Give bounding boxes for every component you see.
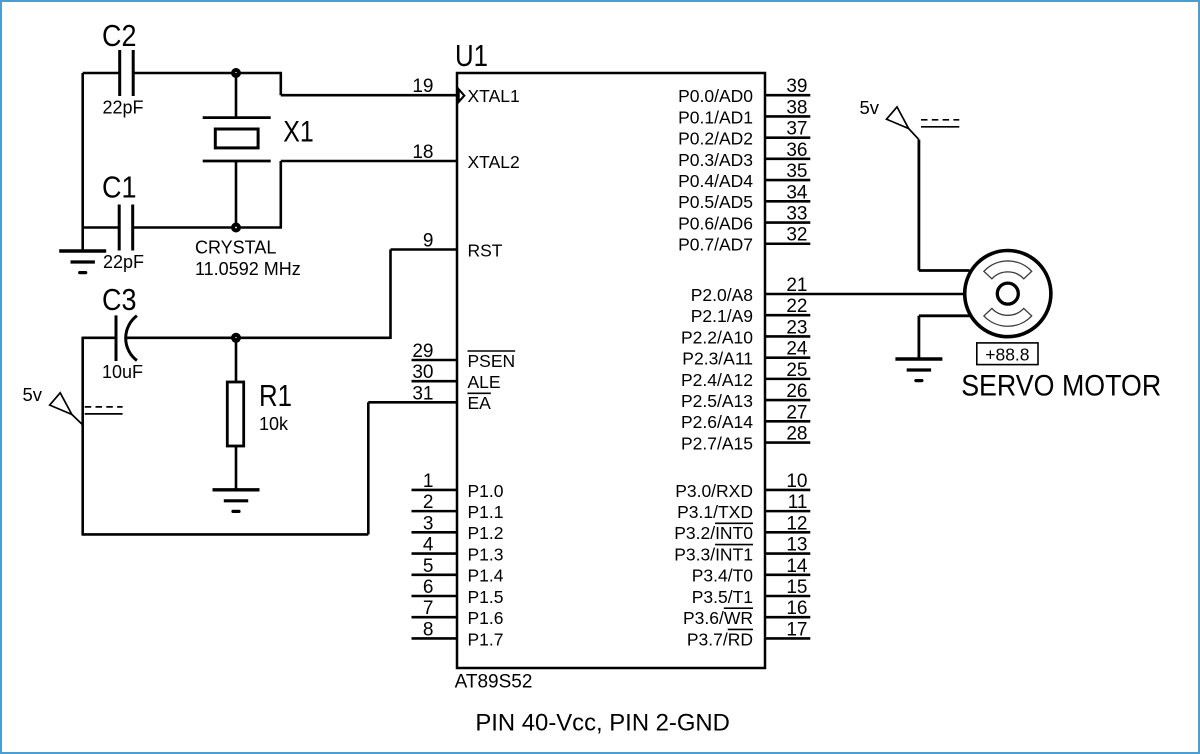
capacitor C2	[120, 50, 134, 96]
svg-text:P3.1/TXD: P3.1/TXD	[677, 502, 753, 522]
power terminal 5v left	[23, 384, 123, 425]
junction crystal top node	[231, 68, 241, 78]
ground servo	[895, 359, 942, 381]
svg-text:13: 13	[786, 535, 807, 556]
svg-text:P3.0/RXD: P3.0/RXD	[675, 481, 753, 501]
input arrowhead pin 19 XTAL1	[459, 89, 465, 102]
svg-text:P1.4: P1.4	[468, 566, 504, 586]
ground under R1	[213, 490, 260, 512]
value 10k of R1	[259, 414, 289, 434]
pin 6 P1.5	[412, 577, 504, 607]
pin 30 ALE	[412, 362, 501, 392]
pin 18 XTAL2	[412, 142, 519, 172]
svg-text:P2.2/A10: P2.2/A10	[681, 327, 753, 347]
pin 23 P2.2/A10	[681, 317, 810, 347]
wire 5v bottom run to EA pin 31	[83, 402, 457, 534]
pin 11 P3.1/TXD	[677, 492, 810, 522]
wire net XTAL2: C1/crystal to chip pin 18	[133, 161, 457, 228]
svg-text:P3.4/T0: P3.4/T0	[692, 566, 754, 586]
svg-text:P0.3/AD3: P0.3/AD3	[678, 150, 753, 170]
svg-text:35: 35	[786, 161, 807, 182]
servo motor body	[965, 251, 1051, 337]
wire C1 to rail	[83, 226, 120, 229]
svg-text:17: 17	[786, 619, 807, 640]
pin 36 P0.3/AD3	[678, 140, 810, 170]
label U1	[455, 38, 488, 73]
svg-text:P3.5/T1: P3.5/T1	[692, 587, 753, 607]
svg-text:22pF: 22pF	[103, 252, 144, 272]
svg-text:12: 12	[786, 513, 807, 534]
pin 29 PSEN	[412, 341, 516, 371]
svg-text:RST: RST	[468, 240, 503, 260]
capacitor C1	[119, 205, 133, 251]
svg-text:AT89S52: AT89S52	[455, 672, 533, 693]
svg-text:32: 32	[786, 225, 807, 246]
wire 5v rail left	[81, 337, 84, 536]
svg-text:P1.2: P1.2	[468, 523, 504, 543]
label C2	[102, 18, 137, 53]
pin 9 RST	[423, 231, 503, 261]
svg-text:36: 36	[786, 140, 807, 161]
svg-text:R1: R1	[259, 378, 292, 413]
caption PIN 40-Vcc, PIN 2-GND	[475, 709, 730, 736]
svg-text:16: 16	[786, 598, 807, 619]
pin 13 P3.3/INT1	[674, 535, 810, 565]
svg-text:P1.6: P1.6	[468, 608, 504, 628]
wire net XTAL1: C2 to chip pin 19	[133, 73, 457, 95]
svg-text:EA: EA	[468, 393, 492, 413]
pin 35 P0.4/AD4	[678, 161, 810, 191]
pin 16 P3.6/WR	[683, 598, 810, 628]
label X1	[283, 116, 314, 149]
svg-text:P2.6/A14: P2.6/A14	[681, 412, 753, 432]
pin 7 P1.6	[412, 598, 504, 628]
svg-text:SERVO MOTOR: SERVO MOTOR	[961, 370, 1161, 403]
svg-text:XTAL1: XTAL1	[468, 86, 520, 106]
svg-text:C2: C2	[102, 18, 137, 53]
pin 19 XTAL1	[412, 76, 519, 106]
pin 12 P3.2/INT0	[674, 513, 810, 543]
svg-text:10uF: 10uF	[102, 362, 143, 382]
svg-text:25: 25	[786, 360, 807, 381]
pin 8 P1.7	[412, 619, 504, 649]
wire C2 left to rail	[83, 72, 120, 75]
svg-text:U1: U1	[455, 38, 488, 73]
svg-text:10k: 10k	[259, 414, 289, 434]
pin 3 P1.2	[412, 513, 504, 543]
capacitor C3 (polarized)	[116, 315, 137, 361]
wire R1 bottom stem	[235, 446, 238, 490]
svg-text:33: 33	[786, 204, 807, 225]
svg-text:P2.4/A12: P2.4/A12	[681, 370, 753, 390]
svg-text:28: 28	[786, 424, 807, 445]
label SERVO MOTOR	[961, 370, 1161, 403]
pin 22 P2.1/A9	[691, 296, 811, 326]
svg-text:P0.4/AD4: P0.4/AD4	[678, 171, 753, 191]
svg-text:P1.1: P1.1	[468, 502, 504, 522]
svg-text:PSEN: PSEN	[468, 351, 516, 371]
svg-text:C3: C3	[102, 282, 137, 317]
pin 32 P0.7/AD7	[678, 225, 810, 255]
svg-text:14: 14	[786, 556, 808, 577]
svg-text:P0.5/AD5: P0.5/AD5	[678, 192, 753, 212]
svg-text:37: 37	[786, 119, 807, 140]
svg-text:P2.5/A13: P2.5/A13	[681, 391, 753, 411]
pin 4 P1.3	[412, 535, 504, 565]
svg-text:ALE: ALE	[468, 372, 501, 392]
svg-text:8: 8	[423, 619, 434, 640]
wire C3 row	[83, 336, 391, 339]
pin 2 P1.1	[412, 492, 504, 522]
wire left ground rail (top)	[81, 73, 84, 251]
svg-text:22: 22	[786, 296, 807, 317]
svg-text:6: 6	[423, 577, 434, 598]
pin 26 P2.5/A13	[681, 381, 810, 411]
ground left rail	[59, 251, 106, 273]
svg-text:P2.1/A9: P2.1/A9	[691, 306, 753, 326]
value 10uF of C3	[102, 362, 143, 382]
svg-text:P0.2/AD2: P0.2/AD2	[678, 129, 753, 149]
svg-text:26: 26	[786, 381, 807, 402]
value CRYSTAL 11.0592 MHz	[195, 238, 301, 280]
junction crystal bottom node	[231, 223, 241, 233]
svg-text:P2.7/A15: P2.7/A15	[681, 433, 753, 453]
svg-text:31: 31	[412, 383, 433, 404]
svg-text:11.0592 MHz: 11.0592 MHz	[195, 259, 301, 279]
svg-text:P3.6/WR: P3.6/WR	[683, 608, 753, 628]
svg-text:XTAL2: XTAL2	[468, 152, 520, 172]
svg-text:9: 9	[423, 231, 434, 252]
svg-text:27: 27	[786, 402, 807, 423]
op IC U1 AT89S52 body	[457, 73, 765, 668]
pin 24 P2.3/A11	[682, 339, 810, 369]
svg-text:P3.2/INT0: P3.2/INT0	[674, 523, 753, 543]
svg-text:5v: 5v	[23, 384, 43, 405]
pin 1 P1.0	[412, 471, 504, 501]
svg-text:P0.1/AD1: P0.1/AD1	[678, 107, 753, 127]
label C1	[102, 170, 137, 205]
pin 10 P3.0/RXD	[675, 471, 810, 501]
svg-text:P3.3/INT1: P3.3/INT1	[674, 544, 753, 564]
svg-text:38: 38	[786, 97, 807, 118]
svg-text:P0.7/AD7: P0.7/AD7	[678, 235, 753, 255]
svg-text:X1: X1	[283, 116, 314, 149]
value 22pF of C1	[103, 252, 144, 272]
svg-text:P2.3/A11: P2.3/A11	[682, 349, 753, 369]
pin 17 P3.7/RD	[687, 619, 810, 649]
power terminal 5v servo	[860, 97, 960, 140]
svg-text:29: 29	[412, 341, 433, 362]
pin 34 P0.5/AD5	[678, 182, 810, 212]
pin 5 P1.4	[412, 556, 504, 586]
svg-text:39: 39	[786, 76, 807, 97]
pin 31 EA	[412, 383, 491, 413]
svg-text:P3.7/RD: P3.7/RD	[687, 629, 753, 649]
svg-text:5: 5	[423, 556, 434, 577]
pin 37 P0.2/AD2	[678, 119, 810, 149]
svg-text:P1.7: P1.7	[468, 629, 504, 649]
svg-text:3: 3	[423, 513, 434, 534]
pin 38 P0.1/AD1	[678, 97, 810, 127]
svg-text:P1.0: P1.0	[468, 481, 504, 501]
pin 39 P0.0/AD0	[678, 76, 810, 106]
svg-text:34: 34	[786, 182, 808, 203]
svg-text:18: 18	[412, 142, 433, 163]
servo readout +88.8	[977, 343, 1038, 365]
svg-text:19: 19	[412, 76, 433, 97]
svg-text:23: 23	[786, 317, 807, 338]
svg-text:P1.5: P1.5	[468, 587, 504, 607]
svg-text:CRYSTAL: CRYSTAL	[195, 238, 276, 258]
value AT89S52	[455, 672, 533, 693]
value 22pF of C2	[103, 98, 144, 118]
svg-text:11: 11	[788, 492, 808, 513]
pin 21 P2.0/A8	[691, 275, 808, 305]
svg-text:P1.3: P1.3	[468, 544, 504, 564]
svg-text:24: 24	[786, 339, 808, 360]
svg-text:P2.0/A8: P2.0/A8	[691, 285, 753, 305]
pin 28 P2.7/A15	[681, 424, 810, 454]
pin 14 P3.4/T0	[692, 556, 811, 586]
svg-text:7: 7	[423, 598, 434, 619]
pin 25 P2.4/A12	[681, 360, 810, 390]
svg-text:22pF: 22pF	[103, 98, 144, 118]
svg-text:P0.0/AD0: P0.0/AD0	[678, 86, 753, 106]
crystal X1	[203, 73, 271, 228]
svg-text:2: 2	[423, 492, 434, 513]
wire R1 top stem	[235, 338, 238, 382]
wire 5v to servo motor	[919, 140, 970, 271]
wire servo ground	[919, 316, 970, 359]
svg-text:30: 30	[412, 362, 433, 383]
svg-text:1: 1	[423, 471, 434, 492]
label C3	[102, 282, 137, 317]
svg-text:P0.6/AD6: P0.6/AD6	[678, 213, 753, 233]
wire RST net: chip pin 9 down to C3/R1 node	[391, 250, 458, 340]
pin 33 P0.6/AD6	[678, 204, 810, 234]
svg-text:15: 15	[786, 577, 807, 598]
pin 27 P2.6/A14	[681, 402, 810, 432]
junction RST node	[231, 333, 241, 343]
svg-text:C1: C1	[102, 170, 137, 205]
wire servo pin 21 net P2.0/A8	[765, 293, 964, 296]
svg-text:5v: 5v	[860, 97, 880, 118]
svg-text:10: 10	[786, 471, 807, 492]
resistor R1	[227, 382, 243, 446]
svg-text:+88.8: +88.8	[985, 344, 1029, 364]
svg-text:4: 4	[423, 535, 434, 556]
svg-text:PIN 40-Vcc, PIN 2-GND: PIN 40-Vcc, PIN 2-GND	[475, 709, 730, 736]
pin 15 P3.5/T1	[692, 577, 811, 607]
label R1	[259, 378, 292, 413]
